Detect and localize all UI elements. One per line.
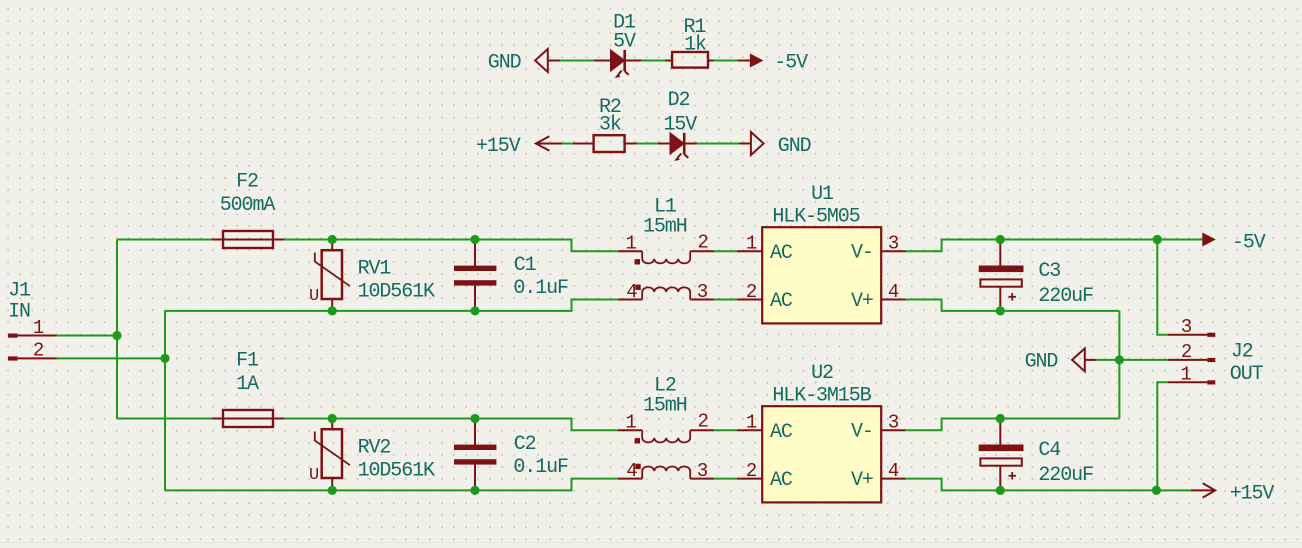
wire U2 pin3 to rail	[906, 419, 1001, 431]
svg-text:-5V: -5V	[1232, 231, 1266, 254]
junction RV1 top	[328, 235, 337, 244]
wire C1 to inductor L1 lower	[475, 300, 618, 311]
wire vertical bus line 2	[164, 311, 166, 491]
svg-text:1A: 1A	[236, 373, 259, 396]
wire J1 pin1 to node	[57, 335, 117, 337]
svg-text:10D561K: 10D561K	[358, 459, 435, 482]
svg-text:D2: D2	[668, 89, 690, 112]
junction C4 bottom	[996, 486, 1005, 495]
junction C2 bottom	[470, 486, 479, 495]
wire L1 to U1 lower	[714, 299, 737, 301]
svg-text:V+: V+	[851, 469, 873, 492]
wire top rail ch2 left	[117, 418, 212, 420]
module U1 HLK-5M05	[737, 183, 906, 323]
resistor R1 1k	[665, 16, 713, 68]
svg-text:10D561K: 10D561K	[358, 280, 435, 303]
wire C2 to inductor L2 lower	[475, 479, 618, 491]
wire fuse to varistor node	[284, 418, 475, 420]
junction C2 top	[470, 414, 479, 423]
svg-text:RV1: RV1	[358, 257, 392, 280]
svg-text:3: 3	[888, 412, 899, 434]
wire GND flag to node	[1096, 359, 1119, 361]
wire -5V rail to arrow	[1000, 239, 1202, 241]
svg-text:AC: AC	[770, 421, 793, 444]
wire D1 to R1	[641, 60, 665, 62]
capacitor C1 0.1uF	[454, 240, 568, 311]
wire R2 to D2	[637, 143, 658, 145]
svg-text:AC: AC	[770, 290, 793, 313]
svg-text:1: 1	[625, 411, 636, 433]
svg-text:-5V: -5V	[774, 51, 808, 74]
wire U1 pin3 to rail	[906, 240, 1001, 252]
svg-text:3: 3	[697, 460, 708, 482]
svg-text:2: 2	[1181, 341, 1192, 363]
wire U1 V+ rail to GND corner	[1000, 310, 1119, 312]
junction RV1 bottom	[328, 306, 337, 315]
connector J1 IN	[8, 279, 31, 323]
svg-text:U: U	[309, 287, 318, 306]
power flag GND (row A)	[488, 49, 560, 74]
svg-text:5V: 5V	[613, 30, 636, 53]
fuse F2 500mA	[212, 170, 284, 248]
wire U1 pin4 to rail	[906, 300, 1001, 311]
svg-text:GND: GND	[778, 135, 811, 158]
junction -5V / J2 pin3 tap	[1153, 235, 1162, 244]
svg-text:AC: AC	[770, 242, 793, 265]
svg-text:15mH: 15mH	[643, 216, 687, 239]
J2 pin 3	[1168, 316, 1215, 338]
wire D2 to GND	[697, 143, 739, 145]
J1 pin 2	[8, 340, 57, 362]
svg-text:4: 4	[888, 281, 899, 303]
wire J2 pin1 vertical	[1157, 382, 1168, 490]
svg-text:0.1uF: 0.1uF	[513, 456, 568, 479]
svg-text:1k: 1k	[684, 34, 706, 57]
svg-text:F2: F2	[236, 170, 258, 193]
capacitor C2 0.1uF	[454, 419, 568, 491]
svg-text:V+: V+	[851, 290, 873, 313]
junction J1 pin1 node	[112, 331, 121, 340]
svg-text:HLK-5M05: HLK-5M05	[772, 205, 859, 228]
svg-text:GND: GND	[1025, 351, 1058, 374]
wire L2 to U2 upper	[714, 429, 737, 431]
inductor L1 15mH coupled	[618, 196, 715, 303]
power flag GND (output)	[1025, 348, 1097, 373]
svg-text:U1: U1	[811, 183, 834, 206]
svg-text:2: 2	[697, 411, 708, 433]
wire GND rail vertical	[1118, 311, 1120, 419]
connector J2 OUT	[1230, 341, 1264, 386]
wire U2 V- rail to GND corner	[1000, 418, 1119, 420]
svg-text:IN: IN	[8, 301, 30, 324]
svg-text:HLK-3M15B: HLK-3M15B	[772, 384, 871, 407]
junction +15V / J2 pin1 tap	[1152, 486, 1161, 495]
fuse F1 1A	[212, 349, 284, 427]
svg-text:V-: V-	[851, 420, 873, 443]
wire fuse to varistor node	[284, 239, 475, 241]
J1 pin 1	[8, 317, 57, 339]
junction RV2 bottom	[328, 486, 337, 495]
module U2 HLK-3M15B	[737, 362, 906, 502]
svg-text:1: 1	[33, 317, 44, 339]
svg-text:OUT: OUT	[1230, 363, 1264, 386]
capacitor C3 220uF polarized	[979, 240, 1093, 311]
junction RV2 top	[328, 414, 337, 423]
wire R1 to -5V	[714, 60, 739, 62]
svg-text:15mH: 15mH	[643, 395, 687, 418]
svg-text:1: 1	[625, 232, 636, 254]
svg-text:1: 1	[746, 233, 757, 255]
svg-text:3: 3	[697, 281, 708, 303]
diode D1 5V zener	[594, 12, 641, 78]
junction C4 top	[996, 414, 1005, 423]
svg-text:+15V: +15V	[1230, 482, 1275, 505]
J2 pin 2	[1168, 341, 1215, 363]
wire L2 to U2 lower	[714, 478, 737, 480]
svg-text:J1: J1	[8, 279, 31, 302]
svg-text:C1: C1	[514, 254, 537, 277]
wire C2 to inductor L2 upper	[475, 419, 618, 431]
svg-text:4: 4	[888, 460, 899, 482]
svg-text:U: U	[309, 466, 318, 485]
wire GND to D1	[560, 60, 594, 62]
inductor L2 15mH coupled	[618, 375, 715, 482]
svg-text:C3: C3	[1038, 260, 1060, 283]
power symbol -5V (row A)	[738, 51, 808, 74]
svg-text:3k: 3k	[599, 113, 621, 136]
svg-text:3: 3	[888, 233, 899, 255]
svg-text:4: 4	[626, 281, 637, 303]
svg-text:F1: F1	[236, 349, 259, 372]
svg-text:GND: GND	[488, 51, 521, 74]
svg-text:2: 2	[33, 340, 44, 362]
svg-text:0.1uF: 0.1uF	[513, 277, 568, 300]
svg-text:+15V: +15V	[476, 135, 521, 158]
resistor R2 3k	[573, 96, 637, 152]
junction C1 bottom	[470, 306, 479, 315]
svg-text:V-: V-	[851, 241, 873, 264]
svg-text:C4: C4	[1038, 439, 1060, 462]
power symbol -5V output	[1202, 231, 1266, 254]
wire C1 to inductor L1 upper	[475, 240, 618, 252]
svg-text:220uF: 220uF	[1038, 285, 1093, 308]
junction C3 bottom	[996, 306, 1005, 315]
wire J2 pin3 vertical	[1157, 240, 1168, 335]
svg-text:3: 3	[1181, 316, 1192, 338]
svg-text:U2: U2	[811, 362, 833, 385]
wire bottom rail ch1 left	[165, 310, 475, 312]
svg-text:2: 2	[746, 281, 757, 303]
svg-text:AC: AC	[770, 469, 793, 492]
svg-text:2: 2	[697, 232, 708, 254]
wire bottom rail ch2 left	[165, 489, 475, 491]
svg-text:220uF: 220uF	[1038, 464, 1093, 487]
wire +15V rail to arrow	[1000, 489, 1191, 491]
svg-text:1: 1	[1180, 364, 1191, 386]
wire +15V to R2	[562, 143, 573, 145]
junction C3 top	[996, 235, 1005, 244]
wire U2 pin4 to rail	[906, 479, 1001, 491]
power flag GND (row B)	[739, 132, 811, 158]
wire J1 pin2 to node	[57, 357, 165, 359]
junction J1 pin2 node	[160, 354, 169, 363]
power symbol +15V output	[1191, 482, 1275, 505]
wire vertical bus line 1	[116, 240, 118, 419]
svg-text:C2: C2	[514, 433, 536, 456]
svg-text:2: 2	[746, 460, 757, 482]
junction GND node	[1115, 355, 1124, 364]
svg-text:J2: J2	[1231, 341, 1253, 364]
wire L1 to U1 upper	[714, 250, 737, 252]
power symbol +15V (row B)	[476, 135, 562, 158]
J2 pin 1	[1168, 364, 1215, 386]
svg-text:4: 4	[626, 460, 637, 482]
junction C1 top	[470, 235, 479, 244]
wire GND node to J2 pin2	[1119, 359, 1168, 361]
wire top rail ch1 left	[117, 239, 212, 241]
varistor RV2 10D561K	[309, 419, 435, 491]
svg-text:500mA: 500mA	[220, 194, 276, 217]
diode D2 15V zener	[658, 89, 697, 161]
svg-text:RV2: RV2	[358, 436, 391, 459]
varistor RV1 10D561K	[309, 240, 435, 311]
svg-text:1: 1	[746, 412, 757, 434]
svg-text:15V: 15V	[664, 113, 698, 136]
capacitor C4 220uF polarized	[979, 419, 1093, 491]
